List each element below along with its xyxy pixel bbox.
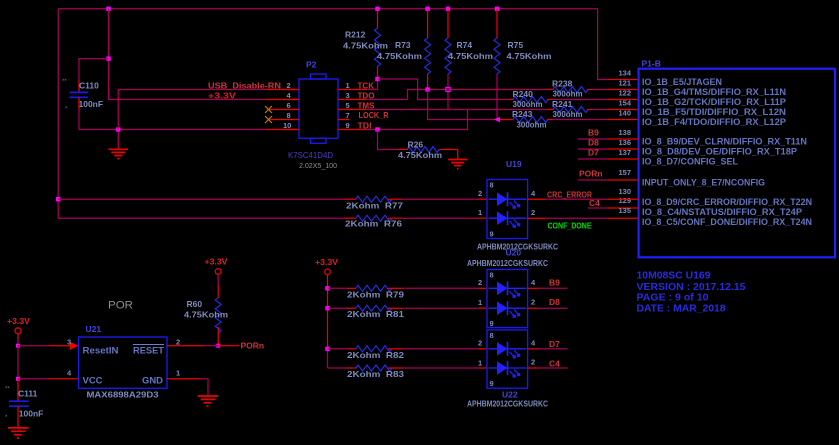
capacitor C110 (62, 79, 103, 113)
P2 pin 8 stub (269, 111, 300, 120)
svg-text:154: 154 (618, 99, 631, 108)
svg-text:PORn: PORn (241, 341, 265, 351)
power +3.3V R60 (205, 258, 229, 298)
svg-text:R240: R240 (513, 89, 534, 99)
power +3.3V ResetIN (7, 317, 31, 346)
svg-text:300ohm: 300ohm (553, 109, 583, 119)
svg-text:R75: R75 (508, 40, 524, 50)
ground symbol near C110 (109, 132, 129, 159)
wire TDO drop to row119 (428, 90, 513, 120)
svg-text:**: ** (5, 387, 10, 393)
wire C111 to ground (17, 406, 19, 428)
svg-text:TDI: TDI (358, 120, 372, 130)
FPGA pin 134 JTAGEN (618, 69, 722, 88)
FPGA pin 157 NCONFIG stub (578, 168, 765, 188)
svg-text:IO_8_B9/DEV_CLRN/DIFFIO_RX_T11: IO_8_B9/DEV_CLRN/DIFFIO_RX_T11N (642, 137, 807, 147)
svg-text:10: 10 (283, 121, 291, 130)
svg-text:2Kohm R82: 2Kohm R82 (347, 350, 404, 360)
svg-text:4.75Kohm: 4.75Kohm (398, 150, 442, 160)
svg-text:9: 9 (490, 379, 494, 388)
FPGA pin 135 CONF_DONE (618, 206, 812, 227)
resistor R241 (548, 99, 592, 119)
svg-text:IO_8_D9/CRC_ERROR/DIFFIO_RX_T2: IO_8_D9/CRC_ERROR/DIFFIO_RX_T22N (642, 197, 812, 207)
wire down to C111 (17, 379, 19, 401)
wire RESET out to PORn (167, 345, 239, 347)
svg-text:R212: R212 (345, 30, 366, 40)
svg-text:2Kohm R81: 2Kohm R81 (347, 309, 404, 319)
svg-text:B9: B9 (588, 128, 599, 138)
FPGA pin 154 TDI (618, 99, 786, 118)
svg-text:R60: R60 (187, 299, 203, 309)
wire R77 to U19 (402, 198, 487, 200)
P2 pin 5 stub TMS (338, 100, 375, 110)
node TDO R73 junction (425, 87, 429, 91)
U19 LED A (489, 192, 527, 209)
U19 pin numbers (478, 189, 536, 217)
svg-text:INPUT_ONLY_8_E7/NCONFIG: INPUT_ONLY_8_E7/NCONFIG (642, 178, 765, 188)
svg-text:2Kohm R76: 2Kohm R76 (345, 218, 402, 228)
svg-text:134: 134 (618, 69, 631, 78)
svg-text:4.75Kohm: 4.75Kohm (184, 310, 228, 320)
svg-text:2Kohm R83: 2Kohm R83 (347, 369, 404, 379)
wire R79 to U20 (403, 287, 487, 289)
no-connect X pin6 (265, 106, 272, 113)
svg-text:VCC: VCC (83, 376, 104, 386)
svg-text:136: 136 (618, 138, 631, 147)
svg-text:U19: U19 (506, 159, 522, 169)
svg-text:2: 2 (478, 339, 482, 348)
svg-text:IO_8_D8/DEV_OE/DIFFIO_RX_T18P: IO_8_D8/DEV_OE/DIFFIO_RX_T18P (642, 147, 797, 157)
node junction x108 y58.6 (106, 56, 110, 60)
U21 part value (87, 390, 159, 400)
svg-text:2: 2 (287, 81, 291, 90)
svg-text:300ohm: 300ohm (517, 120, 547, 130)
node VCC junction (16, 377, 20, 381)
svg-text:6: 6 (287, 101, 291, 110)
LED array U19 body (487, 159, 528, 239)
resistor R81 (347, 305, 404, 319)
wire to R81 (328, 307, 357, 309)
wire C110 bottom to GND row (78, 97, 80, 129)
svg-text:9: 9 (490, 230, 494, 239)
U19 part value (477, 242, 558, 252)
svg-text:3: 3 (67, 338, 71, 347)
ground symbol C111 (8, 428, 29, 438)
FPGA U1 P1-B body (639, 59, 835, 258)
connector P2 body (299, 60, 338, 144)
wire JTAGEN drop (598, 9, 639, 80)
svg-text:8: 8 (287, 111, 291, 120)
svg-text:140: 140 (618, 109, 631, 118)
svg-text:RESET: RESET (133, 346, 165, 356)
wire +3.3V down to VCC row (17, 346, 19, 379)
svg-text:10M08SC U169: 10M08SC U169 (637, 270, 711, 281)
wire GND row to P2 pin10 (79, 129, 299, 131)
net label PORn (579, 169, 603, 179)
wire TMS row109 (366, 109, 548, 111)
U20 pin numbers (478, 278, 536, 307)
svg-text:C110: C110 (79, 81, 99, 91)
svg-text:VERSION : 2017.12.15: VERSION : 2017.12.15 (637, 282, 746, 293)
wire CRC_ERROR row (528, 198, 639, 200)
wire rail to R76 (58, 217, 356, 219)
wire R76 to U19 (402, 217, 487, 219)
wire U22 net D7 (528, 339, 568, 349)
svg-text:129: 129 (618, 196, 631, 205)
capacitor C111 (5, 387, 43, 422)
node ResetIN junction (16, 344, 20, 348)
wire USB_Disable net riser (118, 90, 299, 130)
wire TDI to FPGA (592, 109, 639, 111)
svg-text:2: 2 (531, 208, 535, 217)
svg-text:APHBM2012CGKSURKC: APHBM2012CGKSURKC (467, 399, 548, 409)
resistor R74 (445, 9, 493, 110)
P2 pin 2 stub (283, 81, 299, 90)
svg-text:C111: C111 (18, 389, 38, 399)
node left rail junction y199 (56, 197, 60, 201)
resistor R212 (343, 9, 388, 79)
svg-text:TDO: TDO (358, 90, 375, 100)
net label D8 (588, 138, 599, 148)
svg-text:ResetIN: ResetIN (83, 346, 119, 356)
wire GND pin (167, 379, 208, 396)
svg-text:8: 8 (490, 331, 494, 340)
U21 pin numbers (67, 338, 180, 378)
P2 pin 6 stub (269, 101, 300, 110)
wire +3.3V left rail (57, 9, 59, 218)
ground symbol U21 (198, 396, 219, 406)
U20 LED A (489, 281, 527, 298)
svg-text:8: 8 (490, 271, 494, 280)
svg-text:2: 2 (531, 298, 535, 307)
wire TDI row129 (366, 110, 468, 130)
resistor R238 (548, 79, 592, 99)
resistor R79 (347, 285, 404, 299)
resistor R60 (184, 298, 228, 346)
svg-text:R238: R238 (552, 79, 573, 89)
svg-text:CONF_DONE: CONF_DONE (548, 222, 593, 231)
svg-text:1: 1 (478, 298, 482, 307)
ground symbol R26 (448, 160, 467, 169)
resistor R75 (494, 9, 552, 120)
wire CONF_DONE row (528, 217, 639, 219)
U22 LED B (489, 361, 527, 378)
svg-text:TCK: TCK (358, 80, 375, 90)
svg-text:R243: R243 (512, 109, 533, 119)
wire TCK to FPGA (552, 99, 639, 101)
wire TMS to FPGA (592, 89, 639, 91)
wire TDO to FPGA (552, 119, 639, 121)
node crossover R74 hollow (446, 87, 450, 91)
svg-text:+3.3V: +3.3V (205, 258, 229, 267)
FPGA pin 140 TDO (618, 109, 786, 128)
svg-text:IO_1B_G4/TMS/DIFFIO_RX_L11N: IO_1B_G4/TMS/DIFFIO_RX_L11N (642, 87, 786, 97)
svg-text:R74: R74 (457, 40, 473, 50)
wire +3.3V drop to P2 VCC (109, 9, 300, 100)
P2 part value (288, 150, 337, 170)
svg-text:D7: D7 (549, 339, 560, 349)
node junction GND row (116, 127, 120, 131)
svg-text:D8: D8 (549, 297, 560, 307)
svg-text:130: 130 (618, 187, 631, 196)
wire +3.3V top rail (58, 8, 597, 10)
svg-text:7: 7 (346, 111, 350, 120)
wire rail to R77 (58, 198, 356, 200)
node rail junction x108 (106, 7, 110, 11)
svg-text:4.75Kohm: 4.75Kohm (448, 51, 493, 61)
svg-text:R241: R241 (552, 99, 573, 109)
svg-text:9: 9 (346, 121, 350, 130)
net label USB_Disable-RN (208, 81, 281, 91)
U20 designator (506, 248, 522, 258)
P2 pin 7 stub LOCK_R (338, 110, 389, 120)
POR section title (108, 300, 133, 312)
svg-text:IO_1B_E5/JTAGEN: IO_1B_E5/JTAGEN (642, 77, 722, 87)
no-connect X pin8 (265, 116, 272, 123)
wire TCK jog y79 (378, 79, 514, 100)
node rail junction x377 (375, 7, 379, 11)
svg-text:R26: R26 (408, 140, 424, 150)
svg-text:157: 157 (618, 168, 631, 177)
svg-text:LOCK_R: LOCK_R (359, 110, 389, 120)
net label +3.3V (208, 92, 237, 101)
svg-text:4.75Kohm: 4.75Kohm (343, 41, 388, 51)
resistor R73 (377, 9, 431, 90)
svg-text:3: 3 (346, 91, 350, 100)
U22 part value (467, 399, 548, 409)
svg-text:IO_1B_F5/TDI/DIFFIO_RX_L12N: IO_1B_F5/TDI/DIFFIO_RX_L12N (642, 107, 786, 117)
resistor R243 (512, 109, 552, 130)
P2 pin 1 stub TCK (338, 80, 375, 90)
svg-text:TMS: TMS (358, 100, 375, 110)
FPGA pin 136 DEV_OE stub (578, 138, 797, 157)
svg-text:1: 1 (346, 81, 350, 90)
svg-text:PAGE : 9 of 10: PAGE : 9 of 10 (637, 293, 709, 304)
svg-text:300ohm: 300ohm (553, 88, 583, 98)
wire to R82 (328, 348, 357, 350)
svg-text:4.75Kohm: 4.75Kohm (507, 51, 552, 61)
node rail junction x448 (446, 7, 450, 11)
U22 pin numbers (478, 339, 536, 368)
wire to R83 (328, 367, 357, 369)
P2 pin 3 stub TDO (338, 90, 375, 100)
node rail junction x497 (495, 7, 499, 11)
svg-text:IO_8_C5/CONF_DONE/DIFFIO_RX_T2: IO_8_C5/CONF_DONE/DIFFIO_RX_T24N (642, 217, 812, 227)
node TCK R212 junction (375, 77, 379, 81)
svg-text:D7: D7 (588, 148, 599, 158)
svg-text:PORn: PORn (579, 169, 603, 179)
svg-text:APHBM2012CGKSURKC: APHBM2012CGKSURKC (467, 258, 548, 268)
svg-text:U21: U21 (86, 324, 102, 334)
power +3.3V U20 (315, 258, 339, 368)
svg-text:IO_1B_G2/TCK/DIFFIO_RX_L11P: IO_1B_G2/TCK/DIFFIO_RX_L11P (642, 97, 786, 107)
node U20 row2 junction (325, 306, 329, 310)
svg-text:2: 2 (531, 358, 535, 367)
U22 LED A (489, 342, 527, 359)
svg-text:1: 1 (478, 359, 482, 368)
P2 pin 9 stub TDI (338, 120, 372, 130)
svg-text:137: 137 (618, 148, 631, 157)
resistor R82 (347, 346, 404, 360)
svg-text:D8: D8 (588, 138, 599, 148)
svg-text:POR: POR (108, 300, 133, 312)
wire R82 to U22 (403, 348, 487, 350)
svg-text:B9: B9 (549, 277, 560, 287)
resistor R83 (347, 365, 404, 379)
U19 LED B (489, 211, 527, 228)
resistor R240 (513, 89, 553, 109)
node U22 row1 junction (325, 347, 329, 351)
net label CRC_ERROR (547, 190, 592, 200)
svg-text:9: 9 (490, 319, 494, 328)
svg-text:+3.3V: +3.3V (7, 317, 31, 326)
svg-text:135: 135 (618, 206, 631, 215)
svg-text:300ohm: 300ohm (513, 99, 543, 109)
net label B9 (588, 128, 599, 138)
wire branch to C110 (79, 59, 109, 92)
svg-text:1: 1 (176, 369, 180, 378)
svg-text:GND: GND (142, 376, 164, 386)
wire U20 net B9 (528, 277, 568, 288)
FPGA pin 129 NSTATUS stub (588, 196, 802, 217)
resistor R76 (345, 215, 402, 228)
LED array U22 body (487, 330, 528, 388)
node rail junction x428 (425, 7, 429, 11)
title block text (637, 270, 746, 314)
wire R81 to U20 (403, 307, 487, 309)
resistor R77 (346, 196, 403, 210)
wire R83 to U22 (403, 367, 487, 369)
svg-text:121: 121 (618, 79, 631, 88)
FPGA pin 138 DEV_CLRN stub (578, 128, 807, 147)
wire TDO jog riser (366, 90, 548, 100)
svg-text:8: 8 (490, 181, 494, 190)
FPGA pin 137 CONFIG_SEL stub (578, 148, 739, 167)
svg-text:K7SC41D4D: K7SC41D4D (288, 150, 333, 160)
U21 pin labels (83, 345, 165, 386)
svg-text:USB_Disable-RN: USB_Disable-RN (208, 81, 281, 91)
svg-text:DATE : MAR_2018: DATE : MAR_2018 (637, 304, 726, 315)
svg-text:2Kohm R79: 2Kohm R79 (347, 289, 404, 299)
net label PORn (241, 341, 265, 351)
net label CONF_DONE (548, 222, 593, 231)
FPGA pin 121 TMS (618, 79, 786, 98)
svg-text:+3.3V: +3.3V (208, 92, 237, 101)
FPGA pin 122 TCK (618, 89, 786, 108)
svg-text:CRC_ERROR: CRC_ERROR (547, 190, 592, 200)
svg-text:4.75Kohm: 4.75Kohm (377, 51, 422, 61)
svg-text:2: 2 (478, 189, 482, 198)
wire ResetIN with arrow (18, 342, 79, 350)
svg-text:R73: R73 (395, 40, 411, 50)
svg-text:2.02X5_100: 2.02X5_100 (299, 161, 337, 170)
U20 LED B (489, 301, 527, 318)
svg-text:IO_1B_F4/TDO/DIFFIO_RX_L12P: IO_1B_F4/TDO/DIFFIO_RX_L12P (642, 117, 786, 127)
svg-text:MAX6898A29D3: MAX6898A29D3 (87, 390, 159, 400)
wire VCC row (18, 378, 79, 380)
svg-text:IO_8_C4/NSTATUS/DIFFIO_RX_T24P: IO_8_C4/NSTATUS/DIFFIO_RX_T24P (642, 207, 802, 217)
node TDI R26 junction (375, 127, 379, 131)
svg-text:5: 5 (346, 101, 350, 110)
net label D7 (588, 148, 599, 158)
svg-text:2: 2 (478, 278, 482, 287)
U22 designator (502, 390, 518, 400)
svg-text:C4: C4 (549, 359, 560, 369)
svg-text:P2: P2 (306, 60, 317, 70)
svg-text:IO_8_D7/CONFIG_SEL: IO_8_D7/CONFIG_SEL (642, 157, 739, 167)
wire TCK riser to R212 (366, 79, 378, 90)
FPGA pin 130 CRC_ERROR (618, 187, 812, 207)
svg-text:2Kohm R77: 2Kohm R77 (346, 200, 403, 210)
svg-text:100nF: 100nF (19, 409, 44, 419)
wire U22 net C4 (528, 359, 568, 369)
P2 pin 4 stub (283, 91, 299, 100)
node U20 row1 junction (325, 286, 329, 290)
node PORn junction (216, 344, 220, 348)
svg-text:+3.3V: +3.3V (315, 258, 339, 267)
wire TDI to R26 (378, 130, 409, 150)
svg-text:**: ** (62, 79, 67, 85)
node R75 arrow junction (494, 117, 500, 123)
wire U20 net D8 (528, 297, 568, 308)
svg-text:122: 122 (618, 89, 631, 98)
net label C4 (589, 198, 600, 208)
svg-text:100nF: 100nF (79, 99, 104, 109)
LED array U20 body (487, 270, 528, 328)
wire to R79 (328, 287, 357, 289)
resistor R26 (398, 140, 458, 161)
U20 part value (467, 258, 548, 268)
svg-text:U20: U20 (506, 248, 522, 258)
svg-text:1: 1 (478, 208, 482, 217)
svg-text:P1-B: P1-B (642, 59, 661, 69)
P2 pin 10 stub (283, 121, 299, 130)
svg-text:138: 138 (618, 128, 631, 137)
IC U21 body (79, 324, 168, 388)
